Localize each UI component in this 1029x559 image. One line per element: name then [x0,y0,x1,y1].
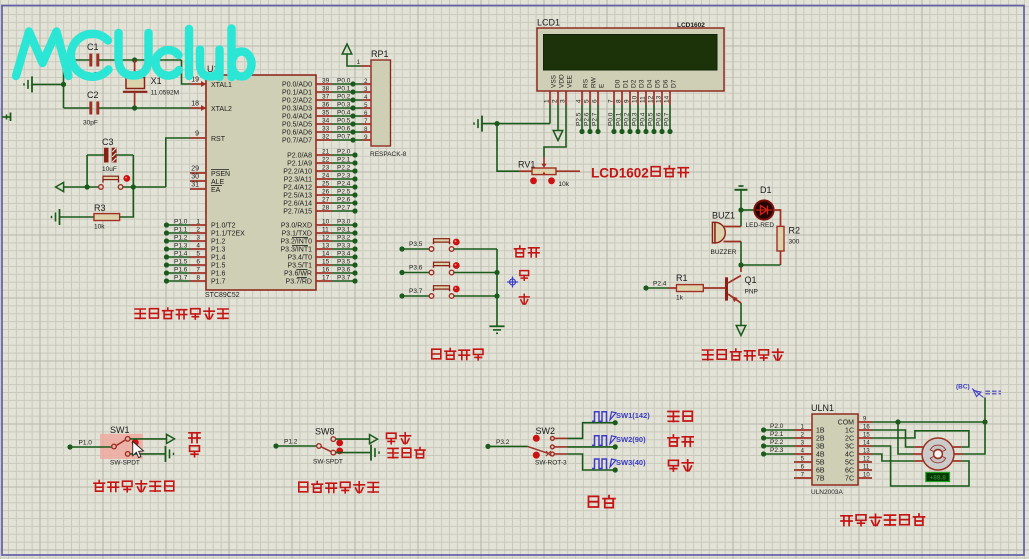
crystal X1 11.0592M [123,60,179,108]
svg-text:7: 7 [608,99,615,103]
svg-text:P2.7/A15: P2.7/A15 [283,209,312,216]
pin XTAL1 (19) [190,77,232,90]
svg-text:P0.5/AD5: P0.5/AD5 [282,122,312,129]
caption 声光报警电路 [703,350,714,360]
svg-text:LED-RED: LED-RED [746,222,775,229]
pin P1.7 (8) with net label P1.7 [164,275,226,286]
node D1 top junction [738,207,743,212]
svg-text:P1.2: P1.2 [174,235,188,242]
node bus junction P3.6 [494,270,499,275]
svg-text:11: 11 [863,465,870,471]
pin P0.7/AD7 (32) with net label P0.7 [282,134,362,145]
svg-text:C1: C1 [87,42,99,52]
svg-text:P2.5: P2.5 [576,112,583,126]
pin P0.3/AD3 (36) with net label P0.3 [282,102,362,113]
wire SW1 top throw to power [130,434,175,443]
wire SW8 bottom throw to ground [336,445,379,461]
svg-text:25: 25 [322,181,330,188]
svg-text:D1: D1 [760,185,772,195]
pin P1.4 (5) with net label P1.4 [164,251,226,262]
svg-text:VDD: VDD [559,74,566,88]
svg-text:P0.2: P0.2 [624,112,631,126]
svg-text:26: 26 [322,189,330,196]
caption 正常 [668,435,679,446]
svg-text:P3.2/INT0: P3.2/INT0 [280,239,312,246]
LED D1 LED-RED [746,185,775,229]
caption 触发 [387,433,397,444]
caption 减 [519,294,529,304]
svg-text:STC89C52: STC89C52 [205,292,240,299]
capacitor C1 30pF [64,42,182,79]
svg-text:8: 8 [196,275,200,282]
svg-text:P0.3: P0.3 [632,112,639,126]
pin P1.5 (6) with net label P1.5 [164,259,226,270]
svg-text:P2.4/A12: P2.4/A12 [283,185,312,192]
svg-text:R1: R1 [676,273,688,283]
wire LCD net label P0.5 [648,105,657,134]
svg-text:P1.1: P1.1 [174,227,188,234]
svg-text:PSEN: PSEN [211,171,230,178]
node reset right junction [131,184,136,189]
svg-text:10k: 10k [94,224,105,231]
svg-text:D1: D1 [623,79,630,88]
svg-text:P2.5: P2.5 [337,189,351,196]
wire VEE to RV1 wiper [544,105,566,157]
svg-text:P3.7: P3.7 [409,288,423,295]
ULN1 pin 1B (1) [794,425,825,435]
motor rpm display [926,473,950,482]
svg-text:1: 1 [544,99,551,103]
ULN1 pin 5B (5) [794,457,825,467]
pin P1.6 (7) with net label P1.6 [164,267,226,278]
svg-text:33: 33 [322,126,330,133]
svg-text:COM: COM [838,420,855,427]
node crystal gnd junction [61,82,66,87]
svg-text:P2.1: P2.1 [770,431,784,438]
pulse generator SW3(40) [592,458,646,469]
svg-text:R2: R2 [789,226,801,236]
svg-text:C2: C2 [87,90,99,100]
svg-text:P3.4/T0: P3.4/T0 [287,255,312,262]
pin 3 of RP1 [362,87,371,93]
svg-text:D6: D6 [663,79,670,88]
svg-text:LCD1602: LCD1602 [677,22,705,29]
svg-text:D5: D5 [655,79,662,88]
svg-text:SW2: SW2 [536,426,556,436]
svg-text:34: 34 [322,118,330,125]
svg-text:P0.1: P0.1 [616,112,623,126]
node X1 bottom junction [132,105,137,110]
LCD pin D5 (12) [648,79,662,105]
caption 加 [520,271,529,281]
net label P2.3 for ULN1 [761,447,794,457]
svg-text:P0.5: P0.5 [337,118,351,125]
svg-text:P0.6: P0.6 [656,112,663,126]
svg-text:1C: 1C [845,428,854,435]
svg-text:5: 5 [196,251,200,258]
net label P2.0 for ULN1 [761,423,794,433]
pin ALE (30) [190,174,225,187]
pin P2.2/A10 (23) with net label P2.2 [283,165,357,176]
svg-text:C3: C3 [102,137,114,147]
svg-text:P0.1/AD1: P0.1/AD1 [282,90,312,97]
LCD pin VDD (2) [552,74,566,105]
svg-text:12: 12 [322,235,330,242]
svg-text:D4: D4 [647,79,654,88]
caption 未触发 [388,448,398,457]
svg-text:5B: 5B [816,460,825,467]
wire flag to COM rail [984,398,986,423]
svg-text:SW3(40): SW3(40) [616,458,646,467]
svg-text:RST: RST [211,136,226,143]
svg-text:P3.0/RXD: P3.0/RXD [281,223,312,230]
ULN1 pin 7C (10) [845,473,872,483]
wire LCD net label P2.6 [584,105,593,134]
wire power to D1 node [740,190,742,210]
node Q1 collector junction [738,262,743,267]
LCD pin RS (4) [576,78,590,105]
svg-text:P3.3/INT1: P3.3/INT1 [280,247,312,254]
svg-text:17: 17 [322,275,330,282]
svg-text:P2.1/A9: P2.1/A9 [287,161,312,168]
svg-text:P0.7: P0.7 [337,134,351,141]
pin P1.2 (3) with net label P1.2 [164,235,226,246]
wire node to Q1 collector [740,265,742,272]
driver ULN1 ULN2003A body [811,403,858,496]
pin P0.6/AD6 (33) with net label P0.6 [282,126,362,137]
pin P2.3/A11 (24) with net label P2.3 [284,173,358,184]
wire C1 to XTAL1 [182,60,191,84]
svg-text:P2.6: P2.6 [584,112,591,126]
wire SW1 bottom throw to ground [130,446,174,462]
push button P3.7 [399,286,497,299]
svg-text:(BC): (BC) [956,384,970,391]
svg-text:P0.0: P0.0 [608,112,615,126]
svg-text:P2.2/A10: P2.2/A10 [283,169,312,176]
svg-text:3C: 3C [845,444,854,451]
wire 1C to motor left top [872,430,915,447]
svg-text:P1.7: P1.7 [174,275,188,282]
svg-text:P3.3: P3.3 [337,243,351,250]
pin P3.6/WR (16) with net label P3.6 [284,267,358,278]
transistor Q1 PNP [727,275,758,303]
svg-text:RS: RS [583,78,590,88]
wire LCD net label P0.4 [640,105,649,134]
svg-text:10: 10 [863,473,870,479]
net label P2.2 for ULN1 [761,439,794,449]
svg-text:14: 14 [863,441,870,447]
LCD pin D3 (10) [632,79,646,105]
LCD LCD1 LCD1602 body [537,18,724,92]
wire LCD net label P2.5 [576,105,585,134]
caption 颜色检测模块 [299,482,308,492]
power bar for alarm circuit [735,186,748,190]
svg-text:4B: 4B [816,452,825,459]
svg-text:P2.0: P2.0 [770,423,784,430]
svg-text:RESPACK-8: RESPACK-8 [370,151,407,158]
svg-text:300: 300 [789,239,800,246]
stepper motor [913,438,963,470]
svg-text:6B: 6B [816,468,825,475]
svg-text:E: E [599,83,606,88]
svg-text:31: 31 [191,182,199,189]
caption 低速 [669,460,679,471]
svg-text:P0.7: P0.7 [664,112,671,126]
svg-text:6: 6 [196,259,200,266]
pin P0.0/AD0 (39) with net label P0.0 [282,78,362,89]
svg-text:SW1: SW1 [110,425,130,435]
wire COM rail [872,419,988,424]
pin P3.7/RD (17) with net label P3.7 [286,275,358,286]
push button P3.5 [399,239,497,252]
svg-text:P1.1/T2EX: P1.1/T2EX [211,231,245,238]
svg-text:12: 12 [863,457,870,463]
LCD pin D0 (7) [608,79,622,105]
svg-text:ALE: ALE [211,179,225,186]
pin P1.3 (4) with net label P1.3 [164,243,226,254]
svg-text:P3.1/TXD: P3.1/TXD [282,231,312,238]
wire LCD net label P0.0 [608,105,617,134]
svg-text:3: 3 [560,99,567,103]
caption 独立按键 [432,349,441,359]
svg-text:P2.2: P2.2 [337,165,351,172]
pin EA (31) [190,182,222,195]
svg-text:SW-SPDT: SW-SPDT [313,459,343,466]
svg-text:BUZ1: BUZ1 [712,211,735,221]
LCD pin D7 (14) [664,79,678,105]
wire 2C to motor right top [872,431,969,447]
pin P3.1/TXD (11) with net label P3.1 [282,227,358,238]
svg-text:P2.3: P2.3 [337,173,351,180]
svg-text:D0: D0 [615,79,622,88]
svg-text:+88.8: +88.8 [929,475,946,482]
pin P3.3/INT1 (13) with net label P3.3 [280,243,357,254]
svg-text:10: 10 [322,219,330,226]
svg-text:VSS: VSS [551,74,558,88]
svg-text:P3.2: P3.2 [337,235,351,242]
ULN1 pin 4B (4) [794,449,825,459]
svg-text:XTAL2: XTAL2 [211,106,232,113]
wire crystal left bus [63,60,65,108]
svg-text:22: 22 [322,157,330,164]
node LCD gnd junction [494,121,499,126]
buzzer BUZ1 [711,211,742,257]
svg-text:P0.7/AD7: P0.7/AD7 [282,138,312,145]
wire LCD net label P2.7 [592,105,601,134]
ULN1 pin 4C (13) [845,449,872,459]
svg-text:Q1: Q1 [745,275,757,285]
wire LCD net label P0.3 [632,105,641,134]
pin P2.5/A13 (26) with net label P2.5 [283,189,357,200]
svg-text:P1.5: P1.5 [174,259,188,266]
svg-text:13: 13 [656,95,663,103]
svg-text:P1.2: P1.2 [211,239,226,246]
pin RST (9) [190,131,226,144]
svg-text:7C: 7C [845,476,854,483]
svg-text:P1.0: P1.0 [79,440,93,447]
wire LED to R2 [774,210,781,226]
ULN1 pin 1C (16) [845,425,872,435]
wire R3 to reset node [120,187,134,217]
svg-text:P2.6/A14: P2.6/A14 [283,201,312,208]
svg-text:1k: 1k [676,295,684,302]
svg-text:6: 6 [592,99,599,103]
wire COM to motor right center tap [963,422,985,454]
svg-text:P1.2: P1.2 [284,439,298,446]
svg-text:D7: D7 [671,79,678,88]
svg-text:13: 13 [322,243,330,250]
pin 5 of RP1 [362,103,371,109]
svg-text:P2.5/A13: P2.5/A13 [283,193,312,200]
svg-text:D2: D2 [631,79,638,88]
svg-text:P1.0/T2: P1.0/T2 [211,223,236,230]
LCD pin D2 (9) [624,79,638,105]
svg-text:7: 7 [196,267,200,274]
svg-text:23: 23 [322,165,330,172]
ULN1 pin 6C (11) [845,465,872,475]
svg-text:RW: RW [591,76,598,88]
svg-text:14: 14 [322,251,330,258]
pin P0.5/AD5 (34) with net label P0.5 [282,118,362,129]
pin 7 of RP1 [362,119,371,125]
svg-text:R3: R3 [94,203,106,213]
origin marker [507,277,518,288]
svg-text:P0.2/AD2: P0.2/AD2 [282,98,312,105]
caption 单片机最小系统 [135,308,228,319]
LCD pin D6 (13) [656,79,670,105]
wire SW2 throw1 to pulse SW1 [555,420,618,438]
caption 有 [190,446,200,457]
ULN1 pin 5C (12) [845,457,872,467]
SW1 selection highlight [100,434,143,459]
ground for R3 [52,209,95,225]
LCD pin E (6) [592,83,606,105]
svg-text:P1.4: P1.4 [211,255,226,262]
svg-text:BUZZER: BUZZER [711,249,737,256]
ULN1 pin COM (9) [838,417,872,427]
node bus junction P3.7 [494,293,499,298]
LCD pin VSS (1) [544,74,558,105]
svg-text:P0.6/AD6: P0.6/AD6 [282,130,312,137]
power arrow down for VDD [553,105,563,141]
svg-text:P2.7: P2.7 [592,112,599,126]
svg-text:35: 35 [322,110,330,117]
svg-text:P0.0/AD0: P0.0/AD0 [282,82,312,89]
svg-text:29: 29 [191,166,199,173]
pin 9 of RP1 [362,135,371,141]
wire LCD net label P0.1 [616,105,625,134]
caption 设置 [515,246,526,257]
svg-text:SW2(90): SW2(90) [616,435,646,444]
svg-text:6C: 6C [845,468,854,475]
svg-text:16: 16 [322,267,330,274]
svg-text:P1.3: P1.3 [211,247,226,254]
svg-text:24: 24 [322,173,330,180]
svg-text:7B: 7B [816,476,825,483]
svg-text:3B: 3B [816,444,825,451]
svg-text:P3.6: P3.6 [409,265,423,272]
net label P1.0 for SW1 [67,440,111,450]
svg-text:4: 4 [196,243,200,250]
pin P1.1 (2) with net label P1.1 [164,227,245,238]
svg-text:11.0592M: 11.0592M [151,90,179,97]
svg-text:2: 2 [552,99,559,103]
wire node to LED D1 [741,209,755,211]
svg-text:5C: 5C [845,460,854,467]
wire LCD net label P0.6 [656,105,665,134]
switch SW8 SW-SPDT [313,427,343,466]
wire COM to motor left center tap [898,422,913,454]
svg-text:P0.3/AD3: P0.3/AD3 [282,106,312,113]
svg-text:P2.0/A8: P2.0/A8 [287,153,312,160]
ground for LCD VSS [474,116,550,132]
svg-text:P3.5: P3.5 [409,241,423,248]
wire 3C to motor right bottom [872,446,969,486]
wire LCD net label P0.2 [624,105,633,134]
svg-text:39: 39 [322,78,330,85]
power arrow down at Q1 emitter [736,326,746,336]
caption 高速 [668,412,679,422]
svg-text:9: 9 [624,99,631,103]
ULN1 pin 3C (14) [845,441,872,451]
mouse cursor [133,441,144,457]
pulse generator SW2(90) [592,435,646,446]
SW2 state dots [533,435,540,459]
wire Q1 emitter down [740,303,742,326]
svg-text:ULN1: ULN1 [811,403,834,413]
svg-text:LCD1602: LCD1602 [591,166,649,181]
svg-text:4C: 4C [845,452,854,459]
pin P1.0 (1) with net label P1.0 [164,219,236,230]
wire SW2 throw3 to pulse SW3 [555,454,618,473]
svg-text:P0.6: P0.6 [337,126,351,133]
pin P2.7/A15 (28) with net label P2.7 [283,205,357,216]
wire buzzer bottom to node [740,242,742,266]
svg-text:P3.1: P3.1 [337,227,351,234]
pin 8 of RP1 [362,127,371,133]
node reset left junction [85,184,90,189]
svg-text:P0.4: P0.4 [640,112,647,126]
svg-text:SW-ROT-3: SW-ROT-3 [535,460,567,467]
switch SW2 SW-ROT-3 [528,426,568,467]
wire R2 bottom [741,251,781,265]
svg-text:P2.3: P2.3 [770,447,784,454]
resistor R2 300 [777,226,800,252]
RV1 adjust buttons [530,177,555,184]
node X1 top junction [132,57,137,62]
svg-text:P3.5/T1: P3.5/T1 [287,263,312,270]
svg-text:P3.2: P3.2 [496,439,510,446]
svg-text:P0.3: P0.3 [337,102,351,109]
svg-text:10k: 10k [559,181,570,188]
pin 1 of RP1 [357,60,371,66]
pulse generator SW1(142) [592,411,650,422]
svg-text:PNP: PNP [745,289,758,296]
pin PSEN (29) [190,166,230,179]
svg-text:1: 1 [196,219,200,226]
svg-text:15: 15 [863,433,870,439]
svg-text:P3.0: P3.0 [337,219,351,226]
svg-text:P3.5: P3.5 [337,259,351,266]
net label P1.2 for SW8 [273,439,316,449]
svg-text:P3.7/RD: P3.7/RD [286,279,312,286]
svg-text:3: 3 [196,235,200,242]
svg-text:D3: D3 [639,79,646,88]
SW8 state dots [336,440,343,455]
ULN1 pin 2B (2) [794,433,825,443]
svg-text:27: 27 [322,197,330,204]
svg-text:13: 13 [863,449,870,455]
